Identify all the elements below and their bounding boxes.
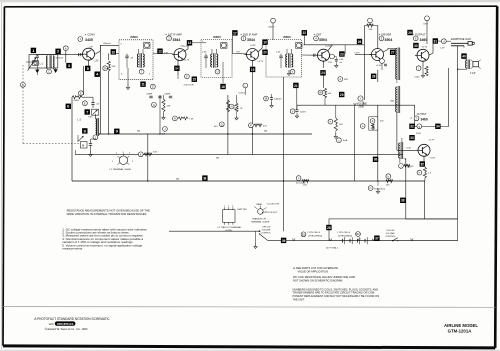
svg-text:E: E [84, 101, 86, 105]
svg-text:EARPHONE JACK: EARPHONE JACK [451, 38, 472, 41]
svg-text:455KC: 455KC [130, 35, 138, 39]
svg-text:C: C [48, 70, 50, 74]
svg-text:25K: 25K [369, 29, 373, 31]
svg-text:3: 3 [232, 205, 233, 207]
svg-text:(4 REQUIRED): (4 REQUIRED) [308, 236, 322, 238]
svg-text:Y: Y [360, 97, 362, 101]
svg-text:PONENT REPLACEMENT AND MAY NOT: PONENT REPLACEMENT AND MAY NOT NECESSARI… [293, 294, 380, 298]
svg-text:2: 2 [116, 153, 117, 155]
svg-text:VOLUME: VOLUME [386, 233, 395, 235]
svg-text:≈0.9V: ≈0.9V [250, 44, 256, 47]
svg-text:≈.07V: ≈.07V [354, 52, 360, 55]
svg-text:WC COIL RESISTANCE VALUES UNDE: WC COIL RESISTANCE VALUES UNDER ONE OHM [293, 275, 355, 279]
svg-text:CONTROL: CONTROL [261, 233, 272, 235]
svg-text:✶ 2ND IF AMP: ✶ 2ND IF AMP [240, 32, 258, 36]
svg-text:✶ 1ST IF AMP: ✶ 1ST IF AMP [165, 32, 182, 36]
svg-text:9mA (silent): 9mA (silent) [374, 187, 385, 190]
svg-text:AIRLINE MODEL: AIRLINE MODEL [444, 323, 478, 328]
svg-text:4.5mV DR: 4.5mV DR [184, 85, 195, 87]
svg-text:EMITTER: EMITTER [238, 209, 248, 211]
svg-text:K: K [140, 152, 142, 156]
svg-text:180mmf: 180mmf [103, 43, 111, 45]
svg-text:36Ω: 36Ω [390, 101, 394, 103]
svg-text:3544: 3544 [173, 38, 181, 42]
svg-text:✶: ✶ [410, 117, 412, 120]
svg-text:13: 13 [188, 41, 192, 45]
svg-text:B: B [203, 176, 206, 181]
svg-text:E: E [80, 91, 82, 95]
svg-text:GUIDE: GUIDE [225, 230, 232, 232]
svg-text:≈1.8V: ≈1.8V [430, 157, 436, 160]
svg-text:10: 10 [112, 50, 116, 54]
svg-text:VOLUME: VOLUME [262, 230, 271, 232]
svg-text:1.3V: 1.3V [328, 62, 333, 64]
svg-text:m: m [370, 187, 372, 190]
svg-text:500mmf: 500mmf [56, 58, 64, 60]
svg-text:5: 5 [132, 161, 133, 163]
svg-text:1.4V: 1.4V [202, 52, 207, 54]
svg-text:COLOR DOT: COLOR DOT [265, 212, 278, 214]
svg-text:≈2.7V: ≈2.7V [422, 46, 428, 49]
svg-text:33: 33 [410, 136, 414, 140]
svg-text:✶ OUTPUT: ✶ OUTPUT [412, 32, 426, 36]
svg-text:NA: NA [162, 133, 166, 136]
svg-text:3544: 3544 [247, 38, 255, 42]
svg-text:.05MF: .05MF [164, 93, 171, 95]
svg-text:≈.2V: ≈.2V [94, 60, 99, 63]
svg-text:measurements.: measurements. [62, 247, 83, 251]
svg-text:14: 14 [175, 67, 179, 71]
svg-text:L3 THRU L5 TERMINAL: L3 THRU L5 TERMINAL [218, 226, 243, 229]
svg-text:L2 TERMINAL GUIDE: L2 TERMINAL GUIDE [110, 168, 132, 171]
svg-text:23: 23 [340, 52, 344, 56]
svg-text:39: 39 [282, 239, 286, 243]
svg-text:≈4.7V: ≈4.7V [258, 60, 264, 63]
svg-text:V: V [292, 109, 294, 113]
svg-text:M: M [265, 97, 267, 101]
svg-text:1: 1 [112, 161, 113, 163]
svg-text:3504: 3504 [385, 38, 393, 42]
svg-text:47Ω: 47Ω [153, 152, 157, 154]
svg-text:R: R [104, 66, 106, 70]
svg-text:1.4V: 1.4V [276, 52, 281, 54]
svg-text:M: M [82, 143, 84, 147]
svg-text:1: 1 [224, 205, 225, 207]
svg-text:3460: 3460 [421, 117, 428, 121]
svg-text:500mf: 500mf [300, 112, 306, 114]
svg-text:27: 27 [391, 51, 395, 55]
svg-text:15K: 15K [167, 106, 171, 108]
svg-text:TERMINAL GUIDE: TERMINAL GUIDE [251, 221, 270, 224]
svg-text:GTM-1201A: GTM-1201A [448, 329, 472, 334]
svg-text:0.05mf: 0.05mf [239, 92, 246, 94]
svg-text:VALUE OR APPLICATION: VALUE OR APPLICATION [298, 269, 329, 273]
svg-text:20: 20 [263, 51, 267, 55]
svg-text:X: X [339, 77, 341, 81]
svg-text:40: 40 [462, 55, 466, 59]
svg-text:25: 25 [340, 93, 344, 97]
svg-text:2: 2 [228, 205, 229, 207]
svg-text:17: 17 [233, 31, 237, 35]
svg-text:4: 4 [129, 153, 130, 155]
svg-text:©Howard W. Sams & Co., Inc. 19: ©Howard W. Sams & Co., Inc. 1960 [45, 327, 88, 331]
svg-text:≈1.4V: ≈1.4V [376, 64, 382, 67]
svg-text:36: 36 [374, 158, 378, 162]
svg-text:TRANSISTOR: TRANSISTOR [252, 218, 266, 221]
svg-text:.05MF: .05MF [146, 93, 153, 95]
svg-text:32: 32 [410, 125, 414, 129]
svg-text:11: 11 [141, 83, 145, 87]
svg-text:6mA: 6mA [343, 139, 348, 142]
svg-text:⊕ SEE PARTS LIST FOR ALTERNATE: ⊕ SEE PARTS LIST FOR ALTERNATE [293, 266, 338, 270]
svg-text:2200: 2200 [415, 77, 421, 79]
svg-text:BASE: BASE [257, 203, 263, 206]
svg-text:12: 12 [158, 50, 162, 54]
svg-text:34: 34 [436, 125, 440, 129]
svg-text:OFF-ON: OFF-ON [262, 227, 270, 229]
svg-text:3435: 3435 [85, 38, 93, 42]
svg-text:20K: 20K [112, 66, 116, 68]
svg-text:A PHOTOFACT STANDARD NOTATION: A PHOTOFACT STANDARD NOTATION SCHEMATIC [34, 317, 110, 321]
svg-text:B2: B2 [356, 232, 360, 236]
svg-text:≈0V: ≈0V [89, 45, 93, 48]
svg-text:U: U [217, 70, 219, 74]
svg-text:15: 15 [193, 78, 197, 82]
svg-text:3460: 3460 [420, 38, 428, 42]
svg-text:ON-OFF: ON-OFF [387, 230, 396, 232]
svg-text:26: 26 [358, 40, 362, 44]
svg-text:≈.14V: ≈.14V [406, 147, 412, 150]
svg-text:Q: Q [221, 122, 223, 126]
svg-text:455KC: 455KC [213, 35, 221, 39]
svg-text:B: B [22, 83, 24, 87]
svg-text:7.5K: 7.5K [189, 119, 194, 121]
svg-text:A: A [65, 46, 67, 50]
svg-text:CIRCUITRACE: CIRCUITRACE [57, 323, 74, 326]
svg-text:1.3V: 1.3V [440, 47, 445, 49]
svg-text:31: 31 [434, 39, 438, 43]
svg-text:COLLECTOR: COLLECTOR [267, 204, 280, 206]
svg-text:✶ DET: ✶ DET [314, 32, 322, 36]
svg-text:P: P [250, 123, 252, 127]
svg-text:≈0V: ≈0V [236, 50, 240, 53]
svg-text:15Ω: 15Ω [303, 185, 307, 187]
svg-text:38: 38 [401, 199, 405, 203]
svg-text:86mV: 86mV [269, 27, 275, 29]
svg-text:G: G [153, 103, 155, 107]
svg-text:3 1/2": 3 1/2" [470, 73, 476, 75]
svg-text:WIDE VARIATION IN INTERNAL TRA: WIDE VARIATION IN INTERNAL TRANSISTOR RE… [67, 212, 147, 216]
svg-text:✶ CONV: ✶ CONV [85, 32, 96, 36]
svg-text:3: 3 [123, 152, 124, 154]
svg-text:D: D [152, 85, 154, 89]
svg-text:H: H [174, 117, 176, 121]
svg-text:1 1/2V CELLS: 1 1/2V CELLS [307, 232, 321, 234]
svg-text:with: with [49, 322, 54, 326]
svg-text:OUTPUT: OUTPUT [417, 113, 427, 116]
svg-text:B1: B1 [302, 232, 306, 236]
svg-text:(4 REQUIRED): (4 REQUIRED) [338, 236, 352, 238]
svg-text:22: 22 [303, 31, 307, 35]
svg-text:≈3.7V: ≈3.7V [429, 139, 435, 142]
svg-text:1.4V: 1.4V [164, 52, 169, 54]
svg-text:CONTROL: CONTROL [385, 236, 396, 238]
svg-text:21: 21 [294, 84, 298, 88]
svg-text:28: 28 [327, 226, 331, 230]
svg-text:✶ DRIVER: ✶ DRIVER [379, 32, 392, 36]
svg-text:455KC: 455KC [283, 35, 291, 39]
svg-text:28: 28 [372, 75, 376, 79]
svg-text:≈0.7V: ≈0.7V [184, 59, 190, 62]
svg-text:37: 37 [375, 237, 379, 241]
svg-text:200K: 200K [359, 106, 365, 109]
svg-text:N: N [231, 105, 233, 109]
svg-text:THE UNIT.: THE UNIT. [293, 297, 306, 301]
svg-text:10K: 10K [339, 124, 343, 126]
svg-text:DET: DET [424, 24, 429, 26]
svg-text:16: 16 [221, 85, 225, 89]
svg-text:1000mf: 1000mf [274, 99, 282, 101]
svg-text:200Ω: 200Ω [74, 100, 80, 102]
svg-text:NOT SHOWN ON SCHEMATIC DIAGRAM: NOT SHOWN ON SCHEMATIC DIAGRAM [293, 279, 342, 283]
svg-text:(6V TOTAL): (6V TOTAL) [326, 246, 338, 249]
svg-text:OSC: OSC [88, 117, 93, 119]
svg-text:30: 30 [414, 44, 418, 48]
svg-text:24: 24 [321, 71, 325, 75]
svg-text:3504: 3504 [319, 38, 327, 42]
svg-text:1 1/2V CELLS: 1 1/2V CELLS [337, 232, 351, 234]
